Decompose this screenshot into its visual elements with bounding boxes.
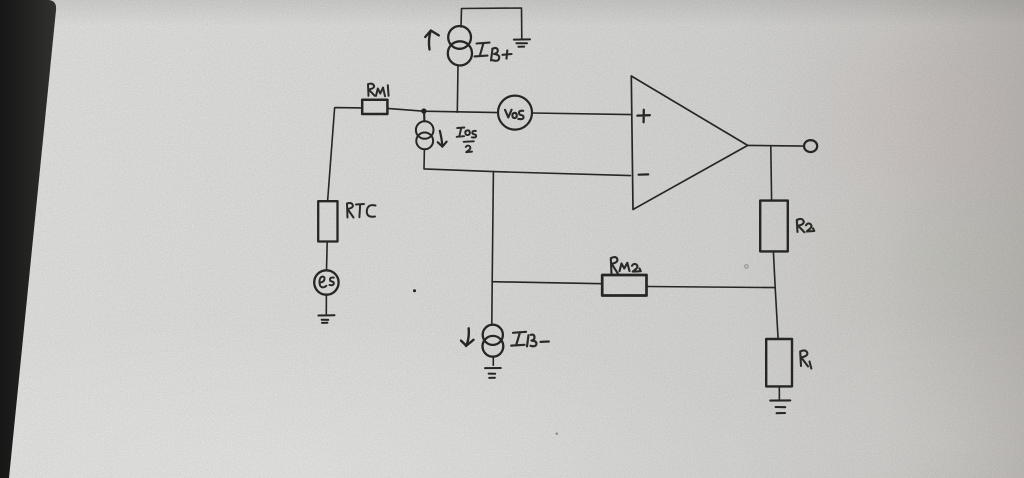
ground (below IB-) bbox=[485, 368, 501, 378]
label RM1 bbox=[368, 84, 389, 97]
label es bbox=[319, 277, 333, 288]
label R1 (bottom right) bbox=[800, 350, 811, 368]
resistor RM2 bbox=[602, 275, 646, 296]
resistor RM1 bbox=[362, 100, 387, 114]
label RTC bbox=[347, 203, 376, 218]
ground (top, right of IB+) bbox=[514, 39, 530, 46]
ink speck near node column bbox=[413, 289, 416, 292]
source es bbox=[314, 270, 338, 294]
wire RTC to es bbox=[326, 242, 329, 271]
down arrow beside IB- bbox=[461, 328, 474, 346]
minus input rail from Ios/2 bbox=[424, 149, 631, 175]
wire es to ground bbox=[325, 295, 327, 314]
plus input rail bbox=[388, 108, 498, 112]
node dot bbox=[421, 108, 426, 113]
wire IB- to ground bbox=[492, 357, 494, 366]
resistor R2 bbox=[760, 201, 788, 252]
label RM2 bbox=[611, 257, 641, 274]
handwritten labels bbox=[319, 43, 814, 369]
wire node to Ios/2 bbox=[423, 112, 425, 121]
minus symbol bbox=[639, 173, 649, 176]
ground (below es) bbox=[318, 315, 334, 323]
down arrow beside Ios/2 bbox=[438, 131, 447, 147]
faint speck bottom middle bbox=[556, 433, 558, 435]
source vos bbox=[498, 96, 532, 130]
vertical wire to IB- and RM2 junction bbox=[492, 172, 494, 325]
black desk wedge at left edge bbox=[0, 0, 56, 478]
label Ios/2 bbox=[457, 128, 476, 153]
ground (below R1) bbox=[770, 400, 790, 413]
output terminal bbox=[804, 140, 817, 152]
wire left: RM1 to corner and down to RTC bbox=[328, 108, 362, 201]
wire top loop from IB+ to ground bbox=[461, 8, 522, 39]
wire output down to R2 bbox=[770, 146, 773, 201]
up arrow beside IB+ bbox=[425, 31, 439, 50]
label IB+ (top current source) bbox=[475, 43, 512, 61]
current source IB+ bbox=[448, 26, 471, 49]
wire junction to R1 bbox=[775, 288, 778, 339]
wire R1 to ground bbox=[778, 387, 780, 401]
RM2 feedback rail bbox=[492, 282, 602, 284]
label IB- bbox=[511, 332, 549, 347]
output wire bbox=[748, 144, 805, 147]
label vos bbox=[505, 110, 524, 119]
faint circlet left of R2 column bbox=[745, 265, 749, 269]
label R2 (right) bbox=[797, 219, 815, 232]
resistor R1 bbox=[766, 339, 792, 386]
current source Ios/2 bbox=[416, 121, 434, 139]
wire IB+ down to plus rail bbox=[456, 66, 459, 113]
op-amp U1 bbox=[631, 76, 747, 210]
plus symbol bbox=[637, 110, 649, 122]
resistor RTC bbox=[318, 201, 337, 241]
wire R2 to junction bbox=[773, 252, 775, 288]
current source IB- bbox=[483, 325, 503, 345]
